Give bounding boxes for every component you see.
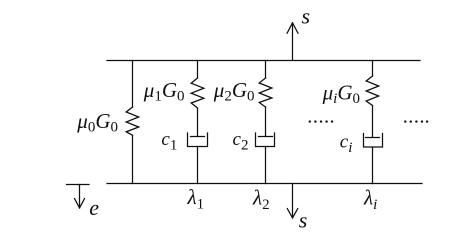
- branch 1 top wire: [197, 61, 199, 79]
- dashpot c2 cylinder cup: [256, 133, 275, 147]
- svg-text:s: s: [299, 207, 308, 232]
- stress arrow s (bottom): [287, 184, 297, 219]
- svg-text:μ2G0: μ2G0: [213, 78, 255, 105]
- svg-text:e: e: [89, 195, 99, 220]
- svg-text:c1: c1: [161, 129, 177, 154]
- dashpot ci cylinder cup: [364, 134, 383, 148]
- spring muiG0: [366, 76, 379, 106]
- svg-text:λi: λi: [363, 186, 377, 214]
- svg-text:λ2: λ2: [252, 185, 270, 213]
- stress arrow s (top): [287, 23, 298, 60]
- svg-text:ci: ci: [340, 132, 353, 157]
- svg-text:μ1G0: μ1G0: [143, 78, 185, 105]
- bottom rail wire: [107, 183, 422, 185]
- branch 1 bottom wire: [197, 147, 199, 184]
- dashpot c2 piston plate: [259, 136, 273, 138]
- dashpot ci piston plate: [366, 137, 380, 139]
- dashpot c2 piston rod wire: [265, 107, 267, 137]
- spring mu1G0: [191, 78, 204, 108]
- spring mu0G0: [126, 107, 139, 135]
- strain gauge arrow e: [67, 185, 90, 209]
- dashpot ci piston rod wire: [372, 106, 374, 138]
- svg-text:λ1: λ1: [187, 185, 205, 213]
- branch i top wire: [372, 61, 374, 77]
- branch 2 top wire: [265, 61, 267, 79]
- svg-text:μiG0: μiG0: [322, 81, 360, 108]
- dashpot c1 piston rod wire: [197, 108, 199, 137]
- svg-text:c2: c2: [233, 129, 249, 154]
- dashpot c1 cylinder cup: [188, 133, 208, 147]
- top rail wire: [107, 60, 420, 62]
- spring mu2G0: [259, 78, 272, 107]
- branch 0 top wire: [132, 61, 134, 108]
- branch i bottom wire: [372, 147, 374, 184]
- branch 2 bottom wire: [265, 147, 267, 184]
- svg-text:μ0G0: μ0G0: [76, 109, 118, 136]
- branch 0 bottom wire: [132, 135, 134, 183]
- ellipsis dots (left): [309, 120, 334, 122]
- ellipsis dots (right): [404, 120, 428, 122]
- svg-text:s: s: [302, 4, 311, 29]
- dashpot c1 piston plate: [191, 136, 205, 138]
